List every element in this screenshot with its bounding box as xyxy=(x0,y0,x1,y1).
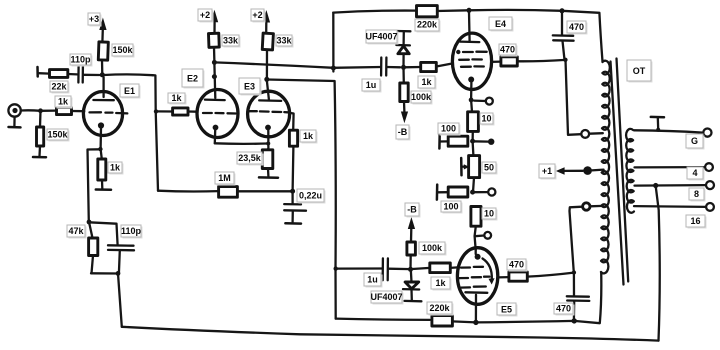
wire heater chain into E5 cathode xyxy=(475,236,476,250)
transformer core lines xyxy=(611,59,629,285)
svg-text:-B: -B xyxy=(407,205,417,215)
terminal bar top-left xyxy=(36,67,39,77)
label 150k input xyxy=(47,129,70,142)
svg-text:100: 100 xyxy=(443,202,458,212)
pentode E4 xyxy=(452,12,491,100)
resistor 150k plate load E1 xyxy=(98,30,108,75)
label 100k upper xyxy=(411,91,433,105)
node: E2 plate / wire A start xyxy=(212,60,217,65)
resistor 220k upper feedback xyxy=(417,6,470,17)
power arrow +1 (left) xyxy=(556,167,583,175)
svg-text:1k: 1k xyxy=(171,93,182,103)
wire E2 cathode to common cathode xyxy=(215,142,268,145)
svg-text:4: 4 xyxy=(692,168,697,178)
ground below 1k cathode E1 xyxy=(96,180,111,190)
capacitor 1u lower xyxy=(336,258,411,280)
node: E2 plate lower dot xyxy=(212,74,217,79)
svg-text:22k: 22k xyxy=(51,82,67,92)
label E4 xyxy=(489,17,514,32)
label 23,5k xyxy=(237,152,264,166)
label 150k plate xyxy=(112,44,135,58)
capacitor 110p input xyxy=(78,67,99,83)
label 220k lower xyxy=(427,302,454,316)
wire NFB rail up to 8 ohm tap xyxy=(656,186,660,340)
wire B: E3 plate to lower coupling rail xyxy=(267,80,336,319)
svg-text:470: 470 xyxy=(509,260,524,270)
terminal +1 filled dot xyxy=(583,166,592,175)
terminal: heater supply filled dot xyxy=(473,139,495,145)
node: lower cap on rail xyxy=(572,318,577,323)
label 1M xyxy=(215,172,236,186)
terminal 8 xyxy=(706,181,714,189)
ground below 0,22u xyxy=(285,211,301,224)
label +3 xyxy=(88,13,102,27)
resistor 150k input to ground xyxy=(37,111,44,146)
label G xyxy=(686,134,705,150)
rail segment down to wire A xyxy=(332,13,334,72)
wire bar to 22k xyxy=(39,72,50,75)
svg-text:1k: 1k xyxy=(58,97,69,107)
potentiometer 50 hum balance xyxy=(461,141,479,192)
top rail corner to 220k xyxy=(333,11,416,13)
wire cathode to feedback branch xyxy=(88,149,101,222)
resistor 1k grid E5 xyxy=(411,263,458,273)
terminal: E4 cathode test point xyxy=(474,98,493,105)
svg-text:220k: 220k xyxy=(429,303,450,313)
node: E1 cathode node xyxy=(98,147,102,151)
capacitor 1u upper xyxy=(381,58,400,76)
label 10 lower xyxy=(482,208,498,221)
svg-text:50: 50 xyxy=(484,163,494,173)
resistor 1M xyxy=(158,187,293,198)
svg-text:33k: 33k xyxy=(223,36,239,46)
svg-text:1u: 1u xyxy=(366,80,377,90)
wire E1 plate node to x155 corner xyxy=(104,73,153,76)
svg-text:+2: +2 xyxy=(252,10,262,20)
svg-text:150k: 150k xyxy=(47,130,68,140)
svg-text:1u: 1u xyxy=(367,275,378,285)
label 22k xyxy=(50,81,70,94)
power arrow -B lower (up) xyxy=(408,217,415,229)
resistor 100k lower to -B xyxy=(407,229,416,270)
svg-text:470: 470 xyxy=(500,45,515,55)
label 10 upper xyxy=(480,113,495,126)
label E5 xyxy=(497,303,518,317)
label 1k cathode E1 xyxy=(108,162,124,175)
svg-text:E5: E5 xyxy=(501,304,512,314)
resistor 1k cathode E1 xyxy=(98,149,106,180)
label 1k grid E4 xyxy=(418,76,437,90)
terminal 16 xyxy=(706,203,714,211)
label 470 screen E5 xyxy=(507,259,528,272)
pentode E5 xyxy=(457,248,497,323)
svg-text:1k: 1k xyxy=(110,163,121,173)
svg-text:100: 100 xyxy=(441,124,456,134)
node: E5 plate on rail xyxy=(473,320,478,325)
node: 1u lower rail tap xyxy=(334,266,338,270)
label E2 xyxy=(182,69,205,89)
label 110p input xyxy=(70,54,93,67)
node: E4 plate top xyxy=(467,8,472,13)
capacitor 0,22u xyxy=(284,191,306,210)
svg-text:0,22u: 0,22u xyxy=(299,191,322,201)
label 47k xyxy=(67,225,87,239)
wire 22k to 110p xyxy=(68,73,77,76)
label UF4007 lower xyxy=(370,291,403,305)
node: E1 plate node xyxy=(100,72,105,77)
label 100 lower xyxy=(441,201,463,214)
wire feedback bottom xyxy=(91,272,118,275)
terminal: lower test point xyxy=(475,232,491,239)
node: 1M / 0,22u / 1k junction xyxy=(290,189,295,194)
wire screen node to UL tap terminal xyxy=(566,60,582,135)
svg-text:10: 10 xyxy=(481,114,491,124)
svg-text:G: G xyxy=(691,136,698,146)
resistor 1k grid E3 xyxy=(289,130,297,191)
resistor 33k plate load E2 xyxy=(208,23,219,63)
wire global NFB bottom rail xyxy=(122,327,659,341)
diode UF4007 upper xyxy=(396,31,410,67)
resistor 100k upper to -B xyxy=(400,68,408,113)
diode UF4007 lower xyxy=(403,270,421,302)
node: NFB tap on 8 wire xyxy=(653,183,658,188)
resistor 1k grid E4 xyxy=(404,62,453,71)
label 470 screen E4 xyxy=(499,44,518,57)
wire A: E2 plate to upper coupling xyxy=(214,62,380,67)
node: E3 plate / wire B start xyxy=(264,77,269,82)
svg-text:E4: E4 xyxy=(495,19,506,29)
resistor 100 heater upper xyxy=(439,134,467,149)
triode E2 xyxy=(197,64,238,143)
svg-text:1k: 1k xyxy=(421,77,432,87)
resistor 470 screen E4 xyxy=(492,57,566,66)
svg-text:-B: -B xyxy=(398,127,408,137)
terminal 4 xyxy=(705,163,713,171)
terminal: primary UL tap upper xyxy=(581,130,589,138)
power arrow +3 xyxy=(99,18,106,31)
ground below 23,5k xyxy=(259,169,278,178)
svg-text:1k: 1k xyxy=(435,278,446,288)
transformer OT secondary winding xyxy=(626,129,634,213)
label UF4007 upper xyxy=(365,30,398,45)
svg-text:33k: 33k xyxy=(276,36,292,46)
node: feedback top xyxy=(87,220,92,225)
svg-text:10: 10 xyxy=(484,209,494,219)
svg-text:1k: 1k xyxy=(303,131,314,141)
capacitor 470 lower plate-screen xyxy=(567,273,590,320)
svg-text:UF4007: UF4007 xyxy=(365,32,397,42)
svg-text:E3: E3 xyxy=(244,81,255,91)
power arrow +2 second xyxy=(263,10,270,23)
label OT xyxy=(627,60,653,83)
svg-text:16: 16 xyxy=(690,216,700,226)
wire secondary 4 tap xyxy=(635,166,706,169)
triode E3 xyxy=(248,81,290,149)
svg-text:E2: E2 xyxy=(187,73,198,83)
resistor 33k plate load E3 xyxy=(262,23,273,79)
terminal G xyxy=(703,129,711,137)
svg-text:470: 470 xyxy=(569,22,584,32)
terminal: heater open circle xyxy=(473,188,496,195)
svg-text:100k: 100k xyxy=(422,243,443,253)
svg-text:110p: 110p xyxy=(121,226,142,236)
node: E2 grid tap xyxy=(154,109,158,113)
resistor 100 heater lower xyxy=(437,185,468,200)
wire screen node to UL tap lower xyxy=(570,207,583,273)
node: wire A joins top rail xyxy=(331,66,336,71)
label 33k second xyxy=(276,35,294,48)
resistor 470 screen E5 xyxy=(498,272,574,281)
resistor 1k grid E2 xyxy=(156,108,197,115)
resistor 23,5k common cathode xyxy=(262,149,273,169)
wire tap to primary xyxy=(589,132,603,135)
label 220k upper xyxy=(415,19,441,33)
label 1k grid E2 xyxy=(168,93,187,105)
node: feedback bottom xyxy=(116,271,121,276)
resistor 22k xyxy=(50,70,68,78)
label 8 xyxy=(689,188,706,202)
svg-text:47k: 47k xyxy=(68,226,84,236)
label 50 xyxy=(482,162,498,175)
resistor 1k grid stopper E1 xyxy=(41,107,85,114)
wire jack to input node xyxy=(21,109,41,112)
label 110p feedback xyxy=(121,225,143,239)
label 100k lower xyxy=(419,242,447,256)
wire top rail to transformer xyxy=(469,10,603,62)
power arrow +2 first xyxy=(211,10,218,22)
label 100 upper xyxy=(438,123,461,136)
svg-text:1M: 1M xyxy=(218,173,231,183)
wire +1 dot to primary xyxy=(592,168,604,171)
label 1k grid E5 xyxy=(431,277,452,291)
node: top 470 cap tap xyxy=(560,8,565,13)
node: heater node 2 xyxy=(470,190,475,195)
label 470 cap upper xyxy=(567,21,588,35)
svg-text:100k: 100k xyxy=(411,92,432,102)
label 1k input xyxy=(55,96,73,109)
label +2 first xyxy=(198,9,214,23)
node: upper screen tap junction xyxy=(563,58,567,62)
svg-text:110p: 110p xyxy=(70,55,91,65)
svg-text:470: 470 xyxy=(556,304,571,314)
svg-text:+2: +2 xyxy=(200,10,210,20)
bottom rail with 220k lower feedback xyxy=(336,272,602,326)
label 4 xyxy=(687,167,705,181)
svg-text:23,5k: 23,5k xyxy=(238,153,262,163)
label -B upper xyxy=(396,125,411,141)
wire secondary 16 tap xyxy=(634,205,706,208)
transformer OT primary winding xyxy=(601,61,610,274)
svg-text:+1: +1 xyxy=(542,166,552,176)
input jack J1 xyxy=(8,104,20,116)
triode E1 xyxy=(83,77,127,149)
label +1 xyxy=(539,164,557,180)
capacitor 110p feedback xyxy=(89,222,134,273)
label 1k grid E3 xyxy=(300,130,318,144)
svg-text:UF4007: UF4007 xyxy=(370,292,402,302)
wire E3 grid exit xyxy=(289,113,294,131)
ground on G wire xyxy=(651,117,664,132)
wire tap to primary lower xyxy=(590,205,602,208)
label 0,22u xyxy=(297,189,326,204)
terminal: primary UL tap lower xyxy=(583,203,590,210)
svg-text:220k: 220k xyxy=(417,20,438,30)
resistor 10 upper heater xyxy=(468,100,479,141)
label E3 xyxy=(239,78,262,96)
label 33k first xyxy=(222,35,241,48)
capacitor 470 upper plate-screen xyxy=(553,11,574,60)
node: lower diode junction xyxy=(408,267,413,272)
label 470 cap lower xyxy=(554,303,575,316)
svg-text:OT: OT xyxy=(633,66,646,76)
node: common cathode junction xyxy=(266,141,270,145)
wire secondary 8 tap xyxy=(635,184,706,187)
node: lower screen tap junction xyxy=(572,270,576,274)
node: heater node 1 xyxy=(470,139,475,144)
svg-text:150k: 150k xyxy=(112,45,133,55)
label 1u lower xyxy=(364,273,383,288)
label E1 xyxy=(120,84,141,99)
power arrow -B upper (down) xyxy=(401,112,408,124)
label +2 second xyxy=(251,9,266,23)
label 16 xyxy=(686,215,707,229)
resistor 47k feedback xyxy=(89,222,98,273)
ground at input jack xyxy=(9,117,21,128)
node: input grid node xyxy=(38,108,43,113)
wire secondary G tap xyxy=(634,130,703,132)
label 1u upper xyxy=(362,79,382,93)
wire direct coupling vertical x155 xyxy=(153,75,159,191)
node: E4 cathode junction xyxy=(469,98,474,103)
svg-text:8: 8 xyxy=(694,189,699,199)
svg-text:+3: +3 xyxy=(89,14,99,24)
ground below 150k input xyxy=(33,146,46,157)
resistor 10 lower heater xyxy=(471,207,481,237)
label -B lower xyxy=(405,203,421,218)
node: upper diode junction xyxy=(401,65,406,70)
wire feedback down to NFB rail xyxy=(118,274,122,327)
svg-text:E1: E1 xyxy=(124,86,135,96)
